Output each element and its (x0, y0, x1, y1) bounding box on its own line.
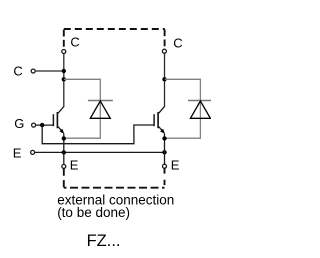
node junction rail left (62, 150, 66, 154)
dashed external connection bottom bus left vertical (63, 168, 65, 187)
Q1 emitter diagonal (58, 127, 63, 133)
wire emitter rail (35, 151, 165, 153)
Q1 collector diagonal (58, 107, 64, 114)
terminal C1 top (62, 50, 66, 54)
Q1 main bar (56, 112, 58, 128)
node junction diode2 top (162, 77, 166, 81)
svg-text:C: C (173, 35, 182, 50)
terminal C side (31, 69, 35, 73)
node junction emitter2/diode2 (162, 136, 166, 140)
wire diode1 loop (64, 79, 100, 138)
node junction gate (40, 123, 44, 127)
Q2 main bar (157, 112, 159, 128)
dashed external connection bottom bus right vertical (164, 168, 166, 185)
svg-text:G: G (14, 116, 24, 131)
dashed external connection top bus horizontal (64, 28, 165, 30)
wire collector 2 vertical (164, 53, 166, 107)
dashed external connection bottom bus horizontal (64, 187, 165, 189)
svg-text:E: E (171, 158, 180, 173)
svg-text:C: C (13, 63, 22, 78)
IGBT Q2 (154, 107, 165, 134)
node junction C side (62, 69, 66, 73)
node junction diode1 top (62, 77, 66, 81)
wire Q1 emitter down (63, 134, 65, 153)
wire diode2 loop (165, 79, 201, 138)
wire G to gate2 staircase (42, 125, 154, 144)
node junction emitter1/diode1 (62, 136, 66, 140)
wire G to gate1 (36, 124, 54, 126)
Q2 emitter diagonal (159, 127, 164, 133)
wire C side to collector (35, 70, 64, 72)
terminal E2 bottom (163, 164, 167, 168)
Q1 emitter arrowhead (59, 129, 64, 134)
terminal E side (31, 150, 35, 154)
Q2 gate bar (153, 114, 155, 126)
svg-text:C: C (70, 35, 79, 50)
svg-text:E: E (70, 158, 79, 173)
Q2 emitter arrowhead (160, 129, 165, 134)
svg-text:E: E (13, 146, 22, 161)
Q2 collector diagonal (159, 107, 165, 114)
terminal C2 top (162, 49, 166, 53)
wire Q2 emitter down (164, 134, 166, 153)
diode D1 cathode bar (88, 100, 113, 102)
diode D1 triangle (90, 101, 110, 118)
terminal E1 bottom (62, 164, 66, 168)
svg-text:FZ...: FZ... (87, 232, 121, 250)
terminal G (32, 123, 36, 127)
diode D2 triangle (190, 101, 210, 118)
dashed external connection top bus right vertical (164, 29, 166, 47)
dashed external connection top bus left vertical (63, 30, 65, 48)
node junction rail right (162, 150, 166, 154)
wire E2 drop (164, 152, 166, 164)
Q1 gate bar (52, 114, 54, 126)
svg-text:(to be done): (to be done) (57, 205, 130, 220)
IGBT Q1 (53, 107, 64, 134)
wire E1 drop (63, 152, 65, 164)
diode D2 cathode bar (188, 100, 212, 102)
wire collector 1 vertical (63, 54, 65, 107)
